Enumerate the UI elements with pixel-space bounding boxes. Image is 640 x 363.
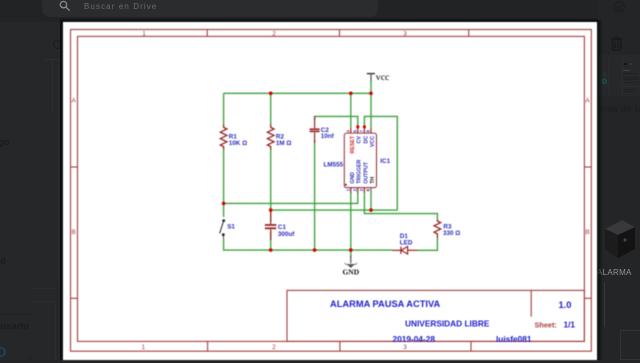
wire TH net horizontal — [271, 209, 398, 211]
svg-text:300uf: 300uf — [278, 231, 295, 238]
svg-text:LED: LED — [400, 240, 413, 247]
svg-text:1/1: 1/1 — [564, 320, 576, 330]
dim top bar — [0, 0, 640, 22]
rotated pin labels top — [350, 135, 376, 153]
right card — [599, 55, 640, 96]
pin stubs bottom — [351, 188, 371, 193]
capacitor C1 — [265, 210, 276, 240]
white schematic page — [63, 22, 597, 360]
junction pin 7 DC — [363, 125, 366, 128]
svg-text:10nf: 10nf — [321, 133, 335, 140]
wire R1 top — [223, 93, 225, 125]
wire output pin3 — [364, 193, 437, 220]
wire C1 top stub — [270, 210, 272, 222]
inner border — [78, 36, 585, 341]
wire R2 bottom — [270, 149, 272, 210]
svg-text:2: 2 — [272, 30, 276, 37]
svg-text:1.0: 1.0 — [559, 300, 572, 310]
capacitor C2 — [310, 116, 320, 143]
svg-text:IC1: IC1 — [380, 158, 390, 165]
rotated pin labels bottom — [350, 159, 376, 183]
svg-text:RESET: RESET — [350, 135, 356, 153]
svg-text:330 Ω: 330 Ω — [443, 230, 460, 237]
svg-text:2019-04-28: 2019-04-28 — [393, 334, 436, 344]
resistor R3 — [434, 220, 441, 238]
svg-text:Sheet:: Sheet: — [535, 321, 557, 330]
ruler ticks bottom — [207, 341, 209, 351]
svg-text:A: A — [72, 98, 77, 105]
svg-text:10K Ω: 10K Ω — [229, 140, 247, 147]
svg-text:GND: GND — [350, 172, 356, 184]
svg-text:2: 2 — [272, 344, 276, 351]
svg-text:UNIVERSIDAD LIBRE: UNIVERSIDAD LIBRE — [405, 318, 490, 328]
pin numbers — [346, 129, 371, 191]
wire C2 bottom down — [314, 140, 316, 250]
svg-text:luisfe081: luisfe081 — [496, 334, 532, 344]
svg-text:OUTPUT: OUTPUT — [363, 161, 369, 184]
IC U1 LM555 — [324, 128, 391, 193]
wire C2 to CV pin5 — [315, 116, 358, 128]
wire gnd symbol stub — [350, 250, 352, 257]
wire VCC stem — [370, 81, 372, 128]
wire reset pin4 — [350, 93, 352, 128]
title block — [287, 290, 584, 341]
ALARMA 3d box — [600, 215, 640, 265]
svg-text:TRIGGER: TRIGGER — [357, 159, 363, 183]
junction node R2/C1 — [269, 208, 273, 212]
left panel fragments — [0, 22, 63, 360]
trash icon — [611, 36, 623, 52]
svg-text:B: B — [72, 229, 76, 236]
junction node R1/S1 — [222, 202, 226, 206]
ground — [344, 256, 357, 268]
ruler labels — [72, 30, 591, 351]
junction node RESET rail — [349, 92, 353, 96]
junction node R2 top rail — [269, 92, 273, 96]
wire pin6 stub down — [370, 193, 372, 211]
search text — [84, 2, 157, 11]
svg-text:ALARMA PAUSA ACTIVA: ALARMA PAUSA ACTIVA — [330, 299, 440, 309]
diode D1 LED — [392, 247, 418, 255]
svg-text:1: 1 — [142, 30, 146, 37]
wire top VCC rail — [224, 92, 371, 94]
page shadows — [60, 18, 598, 22]
svg-text:DC: DC — [363, 136, 369, 144]
search icon — [57, 0, 73, 14]
wire C1 bottom stub — [270, 231, 272, 250]
svg-text:GND: GND — [342, 268, 359, 277]
svg-text:3: 3 — [403, 344, 407, 351]
switch S1 — [220, 219, 226, 239]
junction C2 bottom gnd rail — [313, 248, 317, 252]
wire R1 bottom to S1 node — [223, 149, 225, 203]
junction dots — [222, 92, 373, 252]
wire S1 top stub — [223, 203, 225, 217]
junction node TH — [369, 208, 373, 212]
check circle icon — [612, 0, 628, 14]
wire DC pin7 right drop — [364, 116, 397, 210]
wire R2 top — [270, 93, 272, 125]
wire R3 bottom to LED — [418, 238, 438, 251]
wire S1 bottom / gnd rail — [224, 239, 392, 251]
pin1 marker — [345, 184, 347, 186]
svg-text:3: 3 — [403, 30, 407, 37]
svg-text:LM555: LM555 — [324, 162, 344, 169]
svg-text:CV: CV — [357, 136, 363, 144]
ruler ticks top — [206, 30, 208, 37]
svg-text:TH: TH — [370, 177, 376, 184]
svg-text:VCC: VCC — [370, 136, 376, 147]
search field — [42, 0, 378, 17]
junction pin 5 CV — [356, 125, 359, 128]
right panel — [597, 0, 640, 360]
svg-text:A: A — [585, 98, 590, 105]
junction C1 bottom gnd rail — [269, 248, 273, 252]
wire trigger pin2 — [224, 193, 358, 204]
svg-text:vcc: vcc — [376, 72, 390, 83]
resistor R1 — [220, 125, 227, 150]
svg-text:S1: S1 — [227, 224, 235, 231]
title block text — [330, 299, 575, 344]
svg-text:B: B — [585, 229, 589, 236]
junction node VCC rail — [369, 92, 373, 96]
pin stubs top — [351, 128, 371, 133]
svg-text:1M Ω: 1M Ω — [276, 140, 292, 147]
junction gnd symbol node — [349, 248, 353, 252]
VCC symbol — [367, 74, 375, 81]
resistor R2 — [267, 125, 274, 150]
outer border — [71, 30, 592, 352]
svg-text:1: 1 — [141, 344, 145, 351]
ruler ticks left/right — [71, 166, 78, 168]
wire pin1 gnd down — [350, 193, 352, 251]
